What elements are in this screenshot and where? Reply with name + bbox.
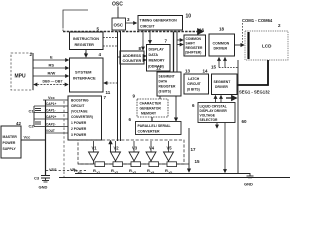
svg-text:MEMORY: MEMORY bbox=[141, 112, 157, 116]
svg-text:1 POWER: 1 POWER bbox=[71, 121, 87, 125]
svg-text:PARALLEL/ SERIAL: PARALLEL/ SERIAL bbox=[138, 124, 172, 128]
svg-text:17: 17 bbox=[191, 147, 197, 152]
svg-text:DB0 — DB7: DB0 — DB7 bbox=[43, 80, 63, 84]
op-amp V4 follower bbox=[146, 141, 156, 164]
svg-text:Vcc: Vcc bbox=[24, 136, 31, 140]
svg-text:C1: C1 bbox=[29, 109, 35, 114]
svg-text:15: 15 bbox=[211, 65, 217, 70]
block latch circuit U13 bbox=[184, 74, 209, 94]
wire bottom rail B bbox=[59, 177, 290, 179]
svg-text:V1: V1 bbox=[92, 146, 98, 151]
svg-text:MASTER: MASTER bbox=[3, 135, 18, 139]
ground GND right bbox=[244, 176, 254, 187]
svg-text:DISPLAY DRIVER: DISPLAY DRIVER bbox=[200, 109, 228, 113]
svg-text:V4: V4 bbox=[149, 146, 155, 151]
wire ground link right bbox=[238, 174, 250, 177]
node resistor label R1 bbox=[93, 168, 101, 175]
svg-text:3 POWER: 3 POWER bbox=[71, 133, 87, 137]
svg-text:SEGMENT: SEGMENT bbox=[159, 75, 175, 79]
block LCD driving voltage selector U17 bbox=[198, 103, 235, 123]
wire bus to address counter bbox=[118, 56, 121, 58]
svg-text:COUNTER: COUNTER bbox=[123, 59, 142, 63]
wire boundary stub bbox=[63, 101, 65, 178]
wire vertical bus to segment register B bbox=[176, 32, 178, 73]
wire segment register to converter bbox=[175, 96, 177, 121]
svg-text:(8 BITS): (8 BITS) bbox=[187, 88, 200, 92]
wire CAP1- bbox=[34, 109, 68, 113]
svg-text:Vcc: Vcc bbox=[48, 96, 55, 100]
svg-text:INSTRUCTION: INSTRUCTION bbox=[73, 37, 99, 41]
wire MPU signal R/W bbox=[33, 71, 69, 77]
capacitor C1 bbox=[29, 109, 42, 114]
op-amp V1 follower bbox=[89, 141, 99, 164]
block character generator memory U9 bbox=[137, 99, 168, 117]
svg-text:REGISTER: REGISTER bbox=[159, 85, 176, 89]
svg-text:CAP1-: CAP1- bbox=[46, 109, 56, 113]
svg-text:R/W: R/W bbox=[48, 71, 56, 76]
svg-text:VOUT: VOUT bbox=[46, 129, 55, 133]
svg-text:CAP2+: CAP2+ bbox=[46, 115, 57, 119]
oscillator OSC box bbox=[112, 18, 126, 30]
svg-text:DRIVER: DRIVER bbox=[215, 85, 228, 89]
svg-text:VOLTAGE: VOLTAGE bbox=[200, 114, 216, 118]
wire vertical bus to segment register A bbox=[173, 32, 175, 73]
svg-text:15: 15 bbox=[195, 159, 201, 164]
wire instruction register to internal bus (upper) bbox=[103, 37, 118, 39]
wire common driver to LCD bbox=[235, 44, 245, 46]
svg-text:C2: C2 bbox=[29, 124, 35, 129]
svg-text:OSC: OSC bbox=[114, 23, 124, 28]
svg-text:12: 12 bbox=[156, 66, 162, 71]
svg-text:ADDRESS: ADDRESS bbox=[123, 54, 142, 58]
wire divider output to rail bbox=[188, 128, 190, 172]
svg-text:GENERATOR: GENERATOR bbox=[140, 107, 162, 111]
block LCD panel bbox=[245, 31, 288, 60]
wire selector to common feed horizontal bbox=[219, 67, 238, 69]
svg-text:SEGMENT: SEGMENT bbox=[214, 80, 232, 84]
svg-text:CAP1+: CAP1+ bbox=[46, 102, 57, 106]
resistor R1 bbox=[95, 162, 105, 167]
wire bus to common shift register (lower) bbox=[177, 44, 183, 46]
wire VOUT bbox=[46, 129, 69, 133]
svg-text:RS: RS bbox=[49, 63, 55, 68]
wire selector to bottom rail bbox=[224, 123, 226, 173]
wire internal bus line B bbox=[120, 32, 122, 142]
svg-text:16: 16 bbox=[199, 28, 205, 33]
wire internal bus line A bbox=[117, 32, 119, 142]
wire CAP1+ bbox=[34, 102, 68, 106]
block boosting circuit U7 bbox=[68, 96, 102, 140]
resistor R3 bbox=[131, 162, 141, 167]
svg-text:SYSTEM: SYSTEM bbox=[75, 70, 92, 75]
node resistor label R2 bbox=[111, 168, 119, 175]
ground GND left bbox=[39, 178, 50, 190]
wire MPU signal RS bbox=[33, 63, 69, 69]
wire cap bus vertical bbox=[33, 106, 35, 127]
svg-text:SELECTOR: SELECTOR bbox=[200, 118, 219, 122]
wire oscillator to timing generator bbox=[126, 22, 137, 24]
svg-text:14: 14 bbox=[203, 69, 209, 74]
svg-text:BOOSTING: BOOSTING bbox=[71, 99, 89, 103]
svg-text:V2: V2 bbox=[114, 146, 120, 151]
block voltage follower bank enclosure bbox=[78, 140, 184, 164]
wire bus to common shift register (upper) bbox=[177, 39, 183, 41]
block segment driver U14 bbox=[212, 74, 238, 95]
svg-text:18: 18 bbox=[219, 27, 225, 32]
block common shift register U16 bbox=[184, 35, 206, 56]
block common driver U18 bbox=[209, 34, 235, 56]
wire main horizontal bus bbox=[63, 31, 203, 33]
wire selector to segment driver A bbox=[215, 96, 217, 103]
wire selector down stub bbox=[216, 123, 218, 129]
wire timing to DDRAM bbox=[149, 30, 151, 44]
wire follower bank feed arrow bbox=[110, 141, 112, 153]
node resistor label R4 bbox=[147, 168, 155, 175]
svg-text:GND: GND bbox=[244, 182, 253, 187]
wire VSS dashed link bbox=[46, 170, 88, 172]
block display data memory DDRAM bbox=[147, 45, 171, 72]
wire common driver feed B bbox=[224, 58, 226, 68]
wire segment register to character generator bbox=[159, 96, 161, 99]
svg-text:POWER: POWER bbox=[3, 141, 16, 145]
block timing generation circuit U10 bbox=[138, 16, 183, 31]
svg-text:10: 10 bbox=[186, 14, 192, 20]
svg-text:MEMORY: MEMORY bbox=[149, 59, 166, 63]
svg-text:SUPPLY: SUPPLY bbox=[3, 147, 17, 151]
svg-text:(8 BITS): (8 BITS) bbox=[159, 90, 171, 94]
wire OSC pin to oscillator bbox=[117, 7, 119, 19]
svg-text:DATA: DATA bbox=[159, 80, 168, 84]
wire selector to COM bus bbox=[226, 97, 237, 99]
svg-text:DISPLAY: DISPLAY bbox=[149, 48, 165, 52]
wire address counter to DDRAM (upper arrow) bbox=[144, 55, 146, 57]
wire MPU data bus DB0-DB7 bbox=[34, 80, 68, 85]
wire address counter to DDRAM (lower arrow) bbox=[144, 59, 146, 61]
resistor R4 bbox=[149, 162, 159, 167]
svg-text:(VOLTAGE: (VOLTAGE bbox=[71, 110, 88, 114]
wire power supply Vcc bbox=[21, 136, 46, 141]
svg-text:CIRCUIT: CIRCUIT bbox=[71, 104, 84, 108]
svg-text:42: 42 bbox=[16, 121, 22, 126]
svg-text:COMMON: COMMON bbox=[186, 37, 202, 41]
svg-text:INTERFACE: INTERFACE bbox=[73, 76, 96, 81]
block system interface U4 bbox=[70, 58, 104, 92]
block segment data register U12 bbox=[157, 72, 181, 96]
block MPU (external) bbox=[11, 53, 33, 90]
capacitor C3 bbox=[34, 176, 50, 181]
wire COM leader bbox=[242, 23, 244, 44]
svg-text:COM1 - COM64: COM1 - COM64 bbox=[242, 18, 273, 23]
svg-text:TIMING GENERATION: TIMING GENERATION bbox=[140, 19, 178, 23]
svg-text:SEG1 - SEG132: SEG1 - SEG132 bbox=[239, 90, 270, 95]
wire common driver feed A bbox=[218, 58, 220, 68]
node resistor label R3 bbox=[129, 168, 137, 175]
svg-text:LATCH: LATCH bbox=[188, 77, 200, 81]
svg-text:CHARACTER: CHARACTER bbox=[140, 102, 162, 106]
svg-text:SHIFT: SHIFT bbox=[186, 42, 196, 46]
svg-text:DATA: DATA bbox=[149, 53, 159, 57]
wire Vcc into boosting circuit bbox=[43, 99, 68, 101]
capacitor C2 bbox=[29, 122, 42, 129]
svg-text:VSS: VSS bbox=[49, 168, 57, 172]
block master power supply bbox=[1, 126, 21, 158]
wire selector to segment driver B bbox=[220, 96, 222, 103]
wire character generator to converter bbox=[151, 117, 153, 121]
svg-text:E: E bbox=[50, 55, 53, 60]
block instruction register U5 bbox=[70, 32, 104, 50]
wire follower rail bbox=[78, 163, 189, 165]
block address counter U8 bbox=[120, 51, 144, 64]
wire timing to address counter bbox=[142, 30, 144, 50]
op-amp V3 follower bbox=[129, 141, 139, 164]
wire bottom rail A bbox=[75, 173, 238, 175]
op-amp V5 follower bbox=[164, 141, 174, 164]
node resistor label R5 bbox=[165, 168, 173, 175]
svg-text:11: 11 bbox=[106, 90, 111, 95]
wire chip boundary top-left corner bbox=[63, 10, 88, 27]
wire Vcc riser bbox=[45, 100, 47, 175]
resistor R2 bbox=[113, 162, 123, 167]
wire CAP2- bbox=[34, 123, 68, 127]
svg-text:CONVERTER: CONVERTER bbox=[138, 130, 160, 134]
svg-text:(SHIFTER): (SHIFTER) bbox=[185, 51, 201, 55]
wire LCD to ground vertical bbox=[237, 60, 239, 174]
svg-text:C3: C3 bbox=[34, 176, 40, 181]
svg-text:GND: GND bbox=[39, 185, 48, 190]
wire MPU signal E bbox=[33, 55, 69, 61]
wire instruction register to internal bus (lower) bbox=[103, 45, 118, 47]
svg-text:V3: V3 bbox=[132, 146, 138, 151]
svg-text:REGISTER: REGISTER bbox=[186, 46, 203, 50]
svg-text:MPU: MPU bbox=[15, 74, 27, 80]
svg-text:COMMON: COMMON bbox=[213, 42, 230, 46]
node resistor label R-VR bbox=[74, 168, 83, 175]
wire instruction register to system interface bbox=[85, 50, 87, 58]
resistor R5 bbox=[167, 162, 177, 167]
svg-text:LIQUID CRYSTAL: LIQUID CRYSTAL bbox=[200, 105, 227, 109]
svg-text:DRIVER: DRIVER bbox=[214, 47, 228, 51]
block parallel/serial converter U6 bbox=[136, 122, 182, 135]
wire CAP2+ bbox=[34, 115, 68, 119]
svg-text:REGISTER: REGISTER bbox=[75, 43, 95, 47]
svg-text:60: 60 bbox=[242, 119, 248, 124]
svg-text:V5: V5 bbox=[167, 146, 173, 151]
svg-text:13: 13 bbox=[185, 69, 191, 74]
svg-text:CIRCUIT: CIRCUIT bbox=[140, 25, 155, 29]
wire segment bus to LCD bbox=[237, 60, 268, 85]
op-amp V2 follower bbox=[111, 141, 121, 164]
svg-text:CONVERTER): CONVERTER) bbox=[71, 115, 93, 119]
svg-text:CIRCUIT: CIRCUIT bbox=[187, 82, 202, 86]
wire internal bus to system interface bbox=[104, 82, 118, 84]
svg-text:2 POWER: 2 POWER bbox=[71, 127, 87, 131]
svg-text:CAP2-: CAP2- bbox=[46, 123, 56, 127]
svg-text:LCD: LCD bbox=[262, 44, 272, 49]
